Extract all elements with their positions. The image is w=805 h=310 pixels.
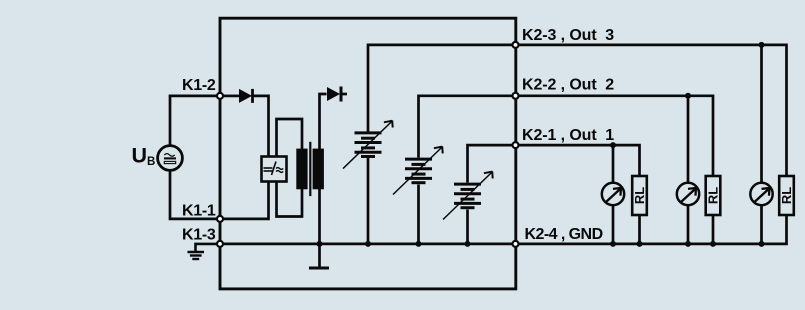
wire K1-1 to converter bottom-left	[222, 181, 269, 219]
wire gnd bus K2-4 to RL3	[519, 215, 787, 244]
wire RL1 bottom	[638, 215, 641, 244]
voltage source U_B	[158, 146, 183, 171]
wire D2 cathode stub	[341, 93, 347, 96]
wire converter bottom-right to transformer primary bottom	[277, 181, 303, 217]
node K2-1	[513, 142, 519, 148]
junction M2/gnd	[685, 241, 691, 247]
wire source B1 bottom to gnd bus	[367, 158, 370, 244]
junction RL1/gnd	[637, 241, 643, 247]
junction M3/K2-3	[759, 42, 765, 48]
node K2-3	[513, 42, 519, 48]
junction M2/K2-2	[685, 93, 691, 99]
meter M2	[677, 183, 699, 205]
junction M1/K2-1	[610, 142, 616, 148]
wire source B3 bottom to gnd bus	[466, 210, 469, 244]
svg-text:RL: RL	[632, 187, 647, 204]
meter M1	[602, 183, 624, 205]
adjustable source B1	[343, 121, 393, 169]
junction B1/gnd	[365, 241, 371, 247]
wire converter top-right to transformer primary top	[277, 119, 303, 157]
resistor RL3	[779, 176, 794, 215]
node K2-4	[513, 241, 519, 247]
wire K2-2 outer to RL2	[519, 96, 713, 176]
svg-text:K1-2: K1-2	[182, 77, 216, 94]
junction M3/gnd	[759, 241, 765, 247]
wire RL2 bottom	[712, 215, 715, 244]
wire chassis ground drop	[318, 244, 321, 267]
wire meter M2 taps	[687, 96, 690, 182]
svg-text:K2-3 , Out 3: K2-3 , Out 3	[522, 27, 614, 44]
adjustable source B3	[443, 171, 493, 219]
wire transformer secondary bottom to gnd bus	[318, 189, 321, 244]
junction secondary/gnd	[317, 241, 323, 247]
svg-text:RL: RL	[779, 187, 794, 204]
svg-text:K2-4 , GND: K2-4 , GND	[525, 226, 603, 243]
diode D1	[239, 89, 253, 103]
wire K2-2 inner	[419, 96, 513, 158]
junction M1/gnd	[610, 241, 616, 247]
wire U_B bottom to K1-1	[170, 171, 217, 219]
junction B3/gnd	[465, 241, 471, 247]
junction RL2/gnd	[710, 241, 716, 247]
wire K2-3 inner	[368, 45, 512, 132]
module enclosure box	[220, 18, 516, 289]
wire gnd bus K1-3 to K2-4	[224, 243, 512, 246]
node K1-1	[217, 216, 223, 222]
wire meter M1 taps	[612, 145, 615, 182]
transformer T1	[296, 142, 324, 196]
wire meter M3 taps	[760, 45, 763, 182]
wire K2-3 outer to RL3	[519, 45, 787, 176]
resistor RL2	[706, 176, 721, 215]
svg-text:K2-2 , Out 2: K2-2 , Out 2	[522, 76, 614, 93]
svg-text:K2-1 , Out 1: K2-1 , Out 1	[522, 127, 614, 144]
diode D2	[327, 87, 341, 102]
node K1-3	[217, 241, 223, 247]
wire K2-1 outer to RL1	[519, 145, 640, 176]
adjustable source B2	[393, 146, 443, 194]
wire U_B top to K1-2	[170, 96, 217, 146]
node K2-2	[513, 93, 519, 99]
svg-text:RL: RL	[706, 187, 721, 204]
wire D1 cathode to converter top-left	[253, 96, 269, 157]
svg-text:K1-3: K1-3	[182, 227, 216, 244]
junction B2/gnd	[416, 241, 422, 247]
wire K1-2 to diode D1	[224, 95, 239, 98]
node K1-2	[217, 93, 223, 99]
svg-text:K1-1: K1-1	[182, 203, 216, 220]
meter M3	[750, 183, 772, 205]
wire transformer secondary top to diode D2	[320, 94, 327, 149]
terminal nodes (open circles)	[217, 42, 519, 247]
resistor RL1	[632, 176, 647, 215]
ground at K1-3	[188, 244, 218, 259]
converter U2 (DC/AC)	[262, 157, 287, 182]
wire source B2 bottom to gnd bus	[417, 185, 420, 244]
wire K2-1 inner	[468, 145, 513, 182]
chassis ground below transformer	[309, 267, 329, 270]
